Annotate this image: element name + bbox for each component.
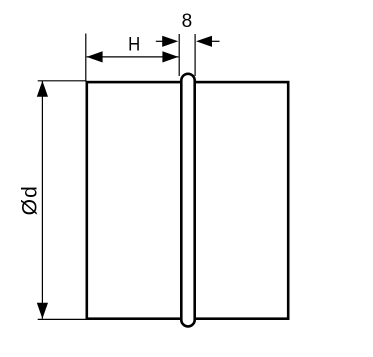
dimension 8 left tail (156, 40, 164, 42)
svg-text:H: H (128, 34, 140, 55)
dimension 8 right tail (212, 40, 220, 42)
arrowhead 8 right (196, 36, 212, 47)
extension line bead right (194, 34, 196, 76)
svg-text:Ød: Ød (18, 185, 41, 215)
centre bead (pill) (181, 74, 194, 327)
extension line diameter bottom (38, 318, 87, 320)
duct body outline (87, 82, 288, 319)
dimension line diameter (41, 81, 43, 319)
arrowhead H right (162, 51, 178, 62)
extension line diameter top (38, 80, 87, 82)
arrowhead diameter up (37, 81, 48, 97)
arrowhead diameter down (37, 303, 48, 319)
arrowhead 8 left (162, 36, 178, 47)
svg-text:8: 8 (182, 11, 193, 32)
arrowhead H left (87, 51, 103, 62)
extension line H left (85, 34, 87, 82)
dimension line H (87, 56, 179, 58)
extension line bead left (178, 34, 180, 76)
